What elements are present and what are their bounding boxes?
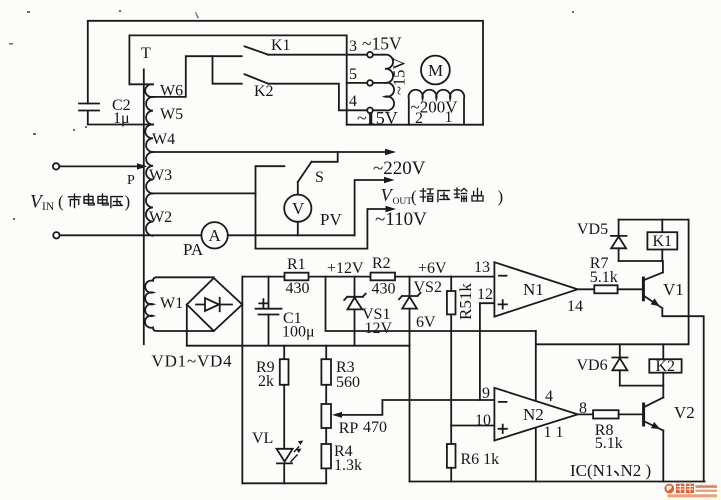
scan noise specks — [9, 10, 574, 220]
motor winding — [409, 90, 465, 125]
svg-text:4: 4 — [545, 388, 553, 405]
wire left box bottom rail — [242, 482, 326, 484]
svg-text:1.3k: 1.3k — [334, 457, 362, 474]
svg-text:W4: W4 — [152, 131, 175, 148]
wire bridge plus vertical (left box edge) — [241, 277, 243, 484]
wire divider node to N2 pin10 — [451, 425, 494, 427]
bridge rectifier VD1~VD4 — [152, 278, 243, 371]
wire branch down to K2 — [213, 56, 242, 83]
wire K1 top rail — [619, 219, 689, 221]
wire K1 to terminal 3 — [268, 54, 366, 56]
svg-text:(: ( — [58, 192, 64, 211]
resistor R9 — [256, 346, 289, 390]
winding W3 — [146, 152, 153, 193]
svg-text:560: 560 — [336, 374, 360, 391]
svg-text:100μ: 100μ — [282, 324, 315, 341]
wire right bus vertical — [346, 35, 348, 124]
LED VL — [252, 385, 303, 484]
wire ground rail bottom — [410, 481, 705, 483]
svg-text:PA: PA — [183, 240, 204, 259]
svg-text:V1: V1 — [663, 280, 684, 299]
winding W5 — [146, 97, 153, 125]
svg-text:R6 1k: R6 1k — [461, 451, 500, 468]
svg-text:P: P — [127, 173, 135, 188]
svg-text:~220V: ~220V — [373, 158, 426, 179]
wire 110V branch vertical — [256, 166, 285, 248]
svg-text:VL: VL — [252, 430, 273, 447]
svg-text:9: 9 — [482, 385, 490, 402]
node terminal 4 — [349, 93, 373, 113]
wire K2 to terminal 4 — [268, 84, 366, 111]
wire input top with wiper arrow P — [60, 165, 138, 167]
svg-text:3: 3 — [349, 38, 357, 55]
watermark logo — [664, 484, 717, 496]
svg-text:4: 4 — [349, 93, 357, 110]
svg-text:430: 430 — [286, 280, 310, 297]
svg-text:K2: K2 — [656, 358, 676, 375]
label VIN (mains voltage input) — [30, 192, 130, 214]
capacitor C2 — [79, 97, 131, 127]
svg-text:~15V: ~15V — [390, 58, 409, 95]
svg-text:V2: V2 — [674, 403, 695, 422]
wire RP wiper to N2 pin9 — [332, 400, 494, 418]
svg-text:OUT: OUT — [393, 197, 413, 207]
winding W4 — [145, 124, 153, 152]
svg-text:VS2: VS2 — [414, 279, 442, 296]
resistor R5 — [447, 277, 475, 425]
svg-text:K1: K1 — [653, 233, 673, 250]
wire ammeter to Vout branch — [228, 234, 355, 236]
node terminal 5 — [349, 66, 373, 86]
svg-text:W1: W1 — [160, 295, 183, 312]
svg-text:13: 13 — [474, 259, 490, 276]
wire terminal 4 down — [369, 114, 371, 125]
svg-text:A: A — [209, 226, 222, 245]
wire tap W3/W2 to 110V branch — [153, 192, 256, 194]
svg-text:W5: W5 — [160, 106, 183, 123]
svg-text:470: 470 — [363, 419, 387, 436]
potentiometer RP 470 — [321, 385, 387, 437]
relay coil K1 — [647, 220, 677, 261]
node terminal 3 — [349, 38, 373, 58]
switch S — [298, 152, 338, 186]
svg-text:R2: R2 — [372, 255, 391, 272]
wire T-box to winding W6 top — [129, 83, 153, 85]
svg-text:S: S — [315, 169, 324, 186]
winding 15V taps — [373, 55, 394, 111]
relay coil K2 — [649, 344, 681, 397]
svg-text:10: 10 — [475, 412, 491, 429]
svg-text:6V: 6V — [416, 314, 436, 331]
zener VS1 — [344, 277, 392, 346]
svg-text:~110V: ~110V — [375, 209, 427, 230]
svg-text:V: V — [292, 199, 305, 218]
transformer core — [143, 69, 145, 344]
diode VD5 — [577, 220, 627, 261]
wire +12V drop to opamp supply rail — [326, 277, 536, 331]
svg-text:VD6: VD6 — [577, 357, 608, 374]
svg-text:VD5: VD5 — [577, 221, 608, 238]
resistor R6 — [447, 426, 499, 482]
wire top outer — [88, 21, 483, 125]
svg-text:~15V: ~15V — [362, 34, 402, 54]
wire N1 pin12 sense vertical — [480, 303, 495, 400]
svg-text:430: 430 — [372, 281, 396, 298]
wire +12V bus A right side — [537, 220, 689, 345]
wire rail to ~110V arrow — [256, 209, 389, 249]
wire S to voltmeter — [297, 182, 299, 195]
wire VD6 bottom to V2 collector — [620, 385, 664, 387]
svg-text:12V: 12V — [365, 320, 393, 337]
svg-text:): ) — [498, 187, 504, 206]
motor M — [421, 56, 450, 85]
svg-text:W2: W2 — [149, 209, 172, 226]
svg-text:2k: 2k — [258, 373, 274, 390]
svg-text:PV: PV — [320, 210, 342, 229]
svg-text:14: 14 — [567, 298, 583, 315]
svg-text:): ) — [125, 192, 131, 211]
svg-text:5.1k: 5.1k — [590, 269, 618, 286]
op-amp N2 — [475, 385, 587, 441]
svg-text:1: 1 — [445, 109, 453, 126]
wire to terminal 5 — [347, 82, 367, 84]
svg-text:N1: N1 — [523, 280, 544, 299]
node input terminal bottom — [53, 232, 59, 238]
diode VD6 — [577, 344, 628, 385]
svg-text:K1: K1 — [271, 37, 291, 54]
wire ~220V output from tap W4/W3 — [153, 151, 388, 153]
wire N2 pin11 to ground — [535, 428, 537, 482]
resistor R8 — [578, 410, 642, 452]
transistor V2 — [644, 398, 695, 431]
svg-text:VD1~VD4: VD1~VD4 — [152, 352, 233, 371]
svg-text:5: 5 — [349, 66, 357, 83]
wire motor box bottom — [347, 124, 483, 126]
svg-text:5.1k: 5.1k — [595, 435, 623, 452]
svg-text:1 1: 1 1 — [544, 424, 564, 441]
wire tap W6/W5 up to relay contacts — [153, 56, 242, 97]
relay contact K2 — [245, 74, 274, 100]
wire VS2 down to ground rail — [409, 309, 411, 482]
svg-text:M: M — [428, 61, 443, 80]
resistor R1 — [285, 256, 310, 297]
wire +12V top rail — [242, 276, 494, 278]
transistor V1 — [643, 261, 683, 308]
label VOUT (regulated output) — [381, 185, 504, 207]
resistor R2 — [371, 255, 396, 298]
svg-text:IN: IN — [42, 201, 55, 213]
ammeter PA — [183, 222, 228, 259]
winding W6 — [145, 84, 153, 97]
svg-text:(: ( — [411, 187, 417, 206]
wire V2 emitter down — [662, 431, 664, 482]
svg-text:+12V: +12V — [327, 260, 364, 277]
svg-text:T: T — [141, 45, 151, 62]
resistor R3 — [321, 346, 360, 391]
svg-text:+6V: +6V — [418, 260, 447, 277]
wire input bottom — [60, 234, 201, 236]
svg-text:R51k: R51k — [456, 283, 475, 320]
svg-text:IC(N1: IC(N1 — [570, 461, 613, 480]
label IC(N1,N2) — [570, 461, 651, 480]
wire Vout arrow — [355, 180, 387, 235]
svg-text:R1: R1 — [287, 256, 306, 273]
relay contact K1 — [245, 37, 291, 55]
wire bridge minus down to mid rail — [186, 305, 188, 346]
capacitor C1 — [256, 277, 315, 346]
wire C2 to winding tap W5/W4 — [88, 124, 153, 126]
winding W1 — [145, 277, 214, 331]
winding W2 — [146, 193, 153, 235]
op-amp N1 — [474, 259, 583, 317]
svg-text:N2: N2 — [523, 405, 544, 424]
svg-text:K2: K2 — [254, 83, 274, 100]
wire K1 bottom to V1 collector — [619, 260, 663, 262]
svg-text:RP: RP — [339, 420, 359, 437]
wire N2 supply pin4 — [535, 331, 537, 401]
svg-text:12: 12 — [477, 286, 493, 303]
wire voltmeter down — [297, 222, 299, 236]
zener VS2 — [399, 277, 442, 331]
transformer T box top — [129, 35, 346, 84]
voltmeter PV — [284, 195, 342, 229]
wire V1 emitter to right bus — [662, 308, 703, 481]
resistor R7 — [578, 255, 642, 293]
wire mid rail — [187, 345, 410, 347]
svg-text:N2 ): N2 ) — [621, 461, 652, 480]
resistor R4 — [321, 428, 362, 483]
svg-text:W3: W3 — [149, 167, 172, 184]
node input terminal top — [53, 163, 59, 169]
